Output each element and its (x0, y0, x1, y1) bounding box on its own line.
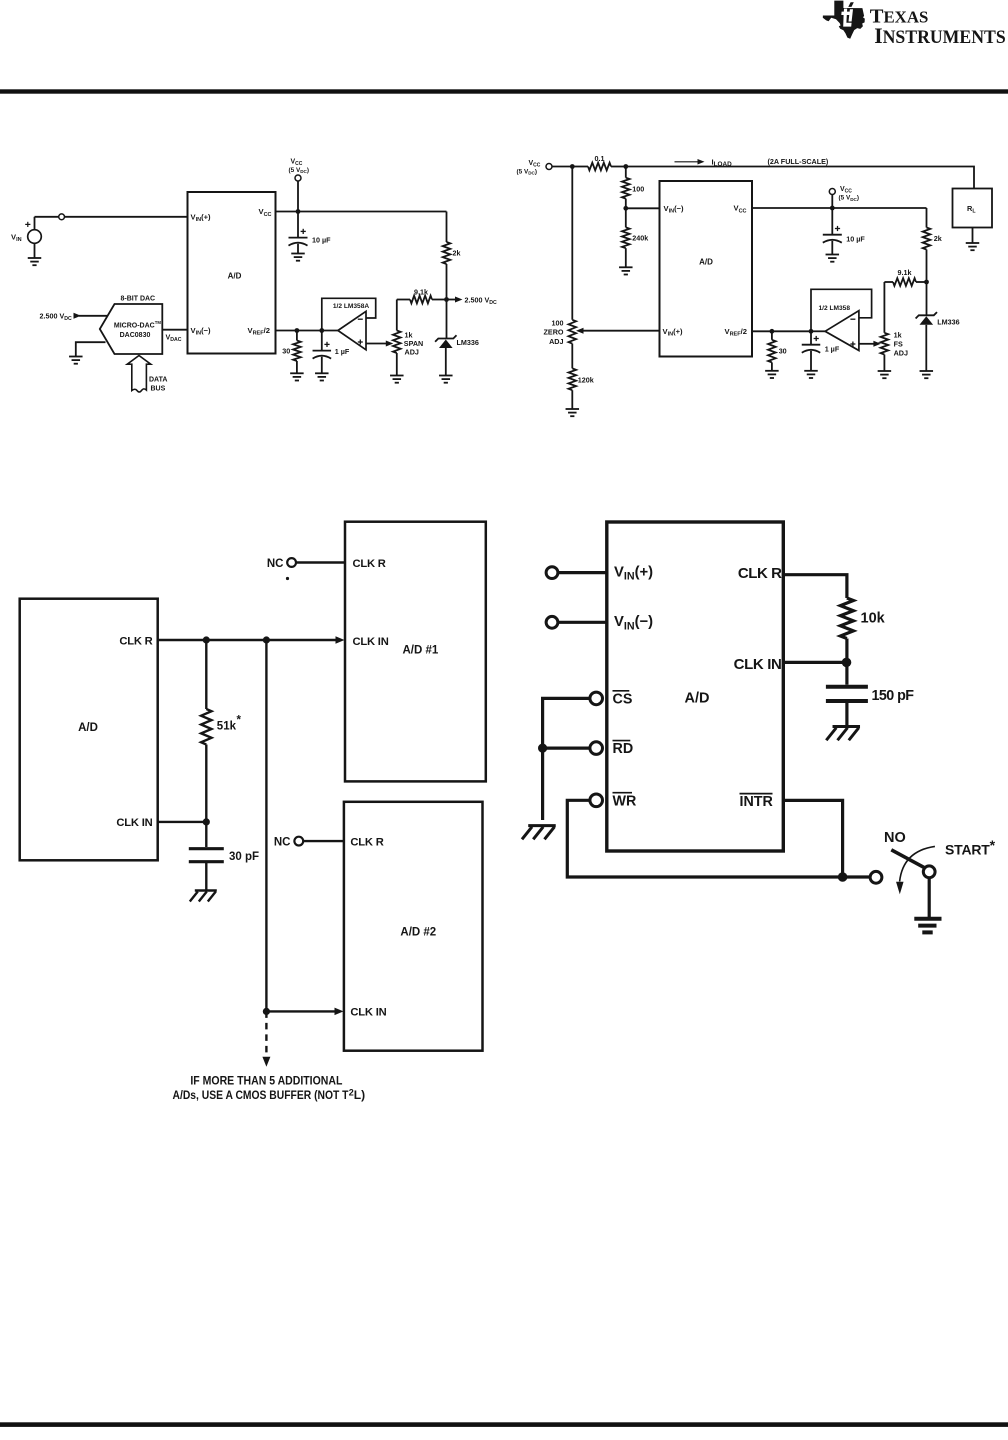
potentiometer 1k FS ADJ (881, 333, 889, 355)
wire pot to 120k (571, 344, 573, 369)
svg-text:CLK R: CLK R (738, 565, 782, 582)
junction 51k (203, 636, 210, 643)
svg-text:TM: TM (155, 320, 162, 325)
wire arrow into AD2 CLK IN (266, 1010, 336, 1012)
pin WR circle (590, 794, 603, 807)
svg-text:51k: 51k (217, 721, 237, 733)
wire pivot to ground (928, 878, 931, 919)
svg-text:30: 30 (779, 346, 787, 355)
ground below 30pF hatched (195, 889, 217, 891)
op-amp U2 1/2 LM358A (322, 330, 338, 332)
svg-text:RD: RD (613, 741, 634, 757)
ground below pot (390, 375, 404, 377)
wire 30 to ground c2 (771, 362, 773, 370)
junction AD2 (263, 1008, 270, 1015)
wire 120k to ground (571, 390, 573, 409)
wire CLK R to 10k (783, 575, 847, 598)
potentiometer 100 ZERO ADJ (569, 320, 577, 344)
svg-text:NC: NC (274, 836, 291, 848)
svg-text:ADJ: ADJ (549, 337, 563, 346)
wire 2k to junction c2 (926, 250, 928, 283)
wire VREF/2 (276, 330, 322, 332)
Texas Instruments logo map (823, 1, 865, 39)
junction 9.1k node c2 (924, 280, 929, 285)
junction 30 c2 (770, 329, 775, 334)
wire 9.1k to FS pot (883, 282, 885, 333)
ground below 10uF (297, 244, 299, 254)
capacitor 30pF (205, 822, 207, 847)
potentiometer 1k SPAN ADJ (393, 331, 401, 354)
ground below RL (972, 228, 974, 244)
ground below 1uF c2 (804, 370, 818, 372)
svg-text:CS: CS (613, 691, 633, 707)
wire CLK IN pin (783, 661, 847, 664)
svg-text:10 µF: 10 µF (312, 235, 331, 244)
svg-text:CLK IN: CLK IN (350, 1007, 386, 1019)
vertical bus wire (265, 640, 267, 1011)
wire pot to ground (396, 353, 398, 376)
wire FS pot to ground (883, 355, 885, 372)
DAC ground leg (76, 342, 106, 356)
capacitor 10uF c2 (831, 208, 833, 235)
svg-text:A/D: A/D (699, 258, 713, 267)
node on VIN(+) wire (35, 216, 59, 218)
resistor 0.1 (572, 166, 588, 168)
left chain wire (571, 167, 573, 320)
pin RD circle (590, 742, 603, 755)
wire CLK IN pin (158, 821, 207, 823)
svg-text:ADJ: ADJ (894, 349, 908, 358)
svg-text:100: 100 (632, 185, 644, 194)
svg-text:WR: WR (613, 793, 637, 809)
wire CLK R bus (158, 639, 337, 641)
svg-text:1 µF: 1 µF (825, 344, 840, 353)
ground below FS pot (878, 370, 892, 372)
svg-text:DAC0830: DAC0830 (120, 332, 151, 339)
svg-text:FS: FS (894, 340, 903, 349)
wire LM336 to ground (445, 348, 447, 376)
dashed expansion wire (265, 1011, 267, 1057)
svg-text:L): L) (354, 1088, 365, 1102)
A/D U4 box (660, 181, 753, 357)
wire 9.1k to pot (396, 300, 398, 331)
svg-text:(5 VDC): (5 VDC) (517, 168, 538, 175)
svg-text:1/2 LM358: 1/2 LM358 (819, 305, 851, 312)
svg-text:A/D: A/D (78, 722, 98, 734)
input terminal VIN(-) (546, 616, 558, 628)
ground below 30 (290, 372, 304, 374)
A/D #2 box (344, 802, 483, 1051)
svg-text:(5 VDC): (5 VDC) (289, 167, 310, 174)
svg-text:BUS: BUS (151, 385, 166, 392)
wire 2k to node (446, 264, 448, 300)
A/D U1 box (188, 192, 276, 354)
wire 1uF to ground (321, 357, 323, 374)
svg-text:2k: 2k (453, 248, 461, 257)
wire down to 2k (446, 212, 448, 243)
DAC U3 MICRO-DAC DAC0830 (100, 304, 163, 354)
ground below CS/RD hatched (528, 824, 556, 827)
svg-text:LM336: LM336 (937, 318, 959, 327)
junction 30 ohm (295, 328, 300, 333)
ground below LM336 c2 (920, 370, 934, 372)
capacitor 1uF (321, 331, 323, 351)
svg-text:1/2 LM358A: 1/2 LM358A (333, 303, 370, 310)
svg-text:IF MORE THAN 5 ADDITIONAL: IF MORE THAN 5 ADDITIONAL (190, 1074, 342, 1088)
op-amp U5 1/2 LM358 (811, 330, 825, 332)
svg-text:A/D: A/D (228, 272, 242, 281)
junction top-left (570, 164, 575, 169)
top rule (0, 89, 1008, 93)
svg-text:*: * (237, 715, 242, 727)
svg-text:ZERO: ZERO (544, 328, 564, 337)
wire VCC pin rail (276, 211, 447, 213)
motion arc (900, 846, 935, 881)
svg-text:A/D: A/D (685, 691, 710, 707)
resistor 30 (296, 331, 298, 341)
svg-text:30: 30 (282, 347, 290, 356)
svg-text:10k: 10k (861, 611, 886, 627)
top rail to RL (626, 167, 974, 189)
ground below LM336 (439, 375, 453, 377)
capacitor 1uF c2 (810, 331, 812, 344)
resistor 120k (569, 368, 577, 390)
svg-text:120k: 120k (578, 375, 594, 384)
junction 2.5V node (444, 297, 449, 302)
A/D U7 box (607, 522, 784, 851)
junction VIN(-) node (623, 206, 628, 211)
stray dot (286, 577, 289, 580)
svg-text:CLK IN: CLK IN (116, 817, 152, 829)
wire 150pF to ground (845, 701, 848, 726)
svg-text:1k: 1k (405, 330, 413, 339)
svg-text:9.1k: 9.1k (414, 287, 428, 296)
arrow 2.500 VDC (447, 299, 457, 301)
wire 240k to ground (625, 248, 627, 267)
svg-text:CLK IN: CLK IN (353, 636, 389, 648)
svg-text:1k: 1k (894, 331, 902, 340)
svg-text:240k: 240k (632, 233, 648, 242)
resistor 10k (840, 598, 853, 639)
wire VDAC (162, 329, 187, 331)
svg-text:MICRO-DAC: MICRO-DAC (114, 322, 155, 329)
feedback wire c2 (811, 289, 872, 331)
svg-text:SPAN: SPAN (404, 339, 423, 348)
ground below DAC (69, 356, 83, 358)
resistor 100 (625, 167, 627, 178)
bottom rule (0, 1422, 1008, 1427)
junction CLK IN c4 (842, 658, 852, 668)
svg-text:DATA: DATA (149, 376, 167, 383)
svg-text:30 pF: 30 pF (229, 851, 259, 863)
feedback wire (322, 298, 376, 330)
junction CLK IN (203, 818, 210, 825)
svg-text:NO: NO (884, 830, 906, 846)
resistor 30 c2 (771, 331, 773, 340)
svg-text:9.1k: 9.1k (898, 268, 912, 277)
A/D #1 box (345, 522, 486, 782)
zener LM336 c2 (926, 282, 928, 315)
wire VREF/2 c2 (752, 330, 811, 332)
svg-text:CLK R: CLK R (350, 836, 383, 848)
svg-text:2k: 2k (934, 234, 942, 243)
wire node to VIN(+) (65, 216, 188, 218)
switch lever (891, 850, 924, 868)
ground below 1uF (315, 372, 329, 374)
svg-text:100: 100 (552, 319, 564, 328)
switch pivot terminal (923, 866, 935, 878)
junction VCC pin (296, 209, 301, 214)
wire 10k to CLK IN (845, 639, 848, 663)
wire 30 to ground (296, 361, 298, 373)
voltage source VIN (34, 217, 36, 230)
resistor 2k (443, 242, 451, 264)
junction 1uF (319, 328, 324, 333)
ground below 120k (566, 408, 580, 410)
wire WR loop (567, 800, 842, 877)
svg-text:0.1: 0.1 (595, 154, 605, 163)
svg-text:LM336: LM336 (457, 338, 479, 347)
resistor RL box (953, 189, 993, 228)
svg-text:NC: NC (267, 558, 284, 570)
svg-text:A/D #1: A/D #1 (403, 645, 439, 657)
junction bus (263, 636, 270, 643)
resistor 9.1k c2 (884, 281, 893, 283)
wire 51k to CLK IN (205, 745, 207, 822)
DATA BUS arrow (127, 356, 151, 393)
VCC supply c2 right (829, 189, 835, 195)
switch contact terminal (870, 871, 882, 883)
wire to switch contact (843, 875, 870, 878)
junction after 0.1 (623, 164, 628, 169)
i-dot slash (848, 2, 854, 7)
svg-text:150 pF: 150 pF (872, 688, 915, 704)
svg-text:1 µF: 1 µF (335, 347, 350, 356)
svg-text:CLK R: CLK R (119, 635, 152, 647)
zener LM336 (435, 335, 456, 341)
wire node to LM336 (446, 300, 448, 339)
pin CS circle (590, 692, 603, 705)
A/D U6 box (20, 599, 158, 861)
svg-text:A/Ds, USE A CMOS BUFFER (NOT T: A/Ds, USE A CMOS BUFFER (NOT T (173, 1088, 350, 1102)
wire 1uF to ground c2 (810, 351, 812, 371)
ground below VIN (34, 243, 36, 258)
ILOAD arrow (675, 161, 699, 163)
input terminal VIN(+) (546, 567, 558, 579)
junction CS/RD (538, 744, 547, 753)
wire 30pF to ground (205, 862, 207, 890)
ground below 10uF c2 (831, 241, 833, 255)
resistor 240k (625, 208, 627, 227)
svg-text:INTR: INTR (740, 794, 774, 810)
wire 100 to VIN(-) (625, 199, 627, 209)
wire LM336 to ground c2 (925, 325, 927, 371)
ground below 150pF hatched (833, 725, 861, 728)
junction INTR/WR (838, 872, 848, 882)
resistor 2k c2 (926, 208, 928, 228)
wire CS to rail (543, 698, 590, 820)
junction 1uF c2 (809, 329, 814, 334)
svg-text:A/D #2: A/D #2 (400, 927, 436, 939)
svg-text:(2A FULL-SCALE): (2A FULL-SCALE) (768, 157, 829, 166)
svg-text:10 µF: 10 µF (846, 235, 865, 244)
ground below 240k (619, 266, 633, 268)
wire RD to rail (543, 746, 590, 749)
resistor 51k (205, 640, 207, 709)
wire VCC pin c2 (752, 207, 927, 209)
ground below switch (914, 917, 941, 921)
svg-text:(5 VDC): (5 VDC) (839, 195, 860, 202)
svg-text:8-BIT DAC: 8-BIT DAC (121, 296, 156, 303)
svg-text:CLK IN: CLK IN (734, 656, 782, 673)
svg-text:CLK R: CLK R (353, 558, 386, 570)
wire INTR loop (783, 800, 842, 877)
resistor 9.1k (397, 299, 410, 301)
capacitor 150pF (845, 662, 848, 684)
capacitor 10uF (297, 212, 299, 238)
arrow into AD1 CLK IN (336, 636, 345, 644)
svg-text:ADJ: ADJ (405, 348, 419, 357)
wire VCC to pin (297, 181, 299, 212)
ground below 30 c2 (765, 370, 779, 372)
